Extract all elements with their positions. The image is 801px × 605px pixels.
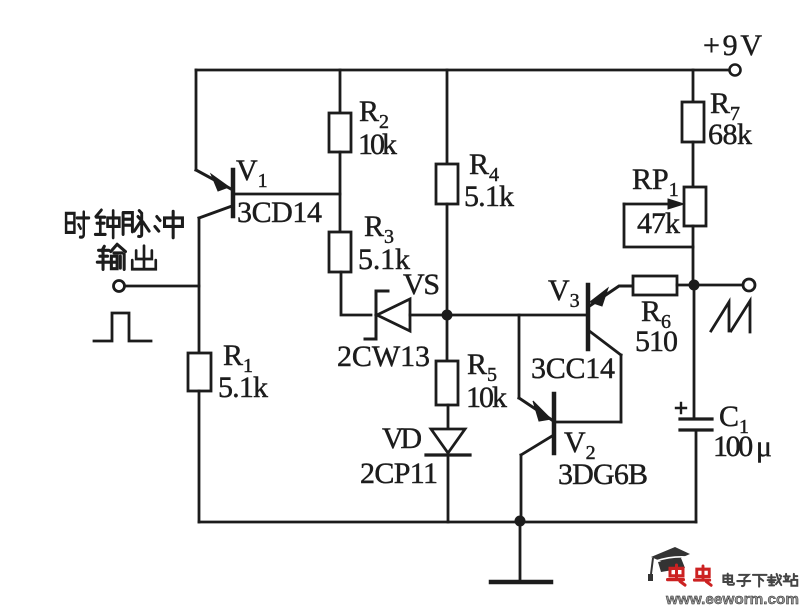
- svg-text:+9V: +9V: [703, 29, 762, 62]
- transistor V2: [519, 394, 554, 455]
- wire R2-R3: [339, 152, 342, 232]
- resistor R7: [682, 102, 704, 142]
- node clock input terminal: [114, 281, 125, 292]
- wire input: [125, 285, 199, 288]
- resistor R1: [188, 353, 211, 391]
- wire node to V3 base: [447, 314, 586, 317]
- sawtooth waveform symbol: [711, 301, 750, 332]
- wire bottom rail: [199, 521, 696, 524]
- svg-text:68k: 68k: [708, 118, 752, 151]
- potentiometer RP1: [624, 187, 706, 247]
- wire top rail: [196, 69, 736, 72]
- resistor R2: [329, 113, 351, 152]
- logo graduation cap: [648, 547, 690, 581]
- resistor R3: [329, 232, 351, 272]
- node zener junction: [442, 310, 453, 321]
- wire left lower vertical: [198, 218, 201, 353]
- wire node to R5: [446, 315, 449, 361]
- pulse waveform symbol: [94, 313, 151, 341]
- wire zener to node: [410, 314, 447, 317]
- wire node to C1: [693, 285, 696, 418]
- wire VD to bottom rail: [447, 456, 450, 522]
- node ground junction: [515, 516, 526, 527]
- svg-text:3DG6B: 3DG6B: [558, 458, 648, 491]
- wire V3 collector riser: [620, 355, 623, 422]
- node output terminal: [743, 279, 755, 291]
- wire R7 to RP1: [692, 142, 695, 187]
- wire C1 to bottom rail: [695, 430, 698, 522]
- wire R4 to node: [446, 204, 449, 315]
- svg-text:5.1k: 5.1k: [218, 371, 268, 404]
- wire RP1 to output node: [692, 226, 695, 285]
- wire output: [694, 284, 743, 287]
- capacitor C1: [676, 403, 712, 430]
- node +9V terminal: [730, 65, 741, 76]
- wire R6 to node: [677, 284, 694, 287]
- svg-text:10k: 10k: [358, 128, 397, 161]
- zener diode VS: [365, 291, 410, 339]
- wire R5 to VD: [447, 405, 450, 429]
- resistor R4: [436, 164, 458, 204]
- svg-text:10k: 10k: [466, 381, 507, 414]
- svg-text:3CD14: 3CD14: [237, 196, 322, 229]
- logo 虫虫 red: [668, 565, 712, 585]
- svg-text:100 μ: 100 μ: [713, 430, 772, 463]
- wire left upper vertical: [195, 70, 198, 170]
- transistor V3: [588, 285, 633, 355]
- wire V2 base: [556, 421, 621, 424]
- svg-text:47k: 47k: [637, 207, 680, 240]
- svg-text:www.eeworm.com: www.eeworm.com: [665, 591, 799, 605]
- svg-text:5.1k: 5.1k: [464, 180, 514, 213]
- wire R3 to zener line: [341, 272, 371, 315]
- wire R7 column top: [692, 70, 695, 102]
- logo text 电子下载站: [723, 574, 797, 587]
- resistor R5: [436, 361, 458, 405]
- svg-text:2CW13: 2CW13: [337, 340, 430, 373]
- resistor R6: [633, 276, 677, 295]
- diode VD: [426, 429, 470, 455]
- wire V2 emitter to ground rail: [520, 455, 523, 521]
- wire R2 column top: [339, 70, 342, 113]
- wire V2 collector riser up: [518, 315, 521, 398]
- svg-text:3CC14: 3CC14: [531, 352, 615, 385]
- svg-text:2CP11: 2CP11: [360, 457, 438, 490]
- transistor V1: [196, 170, 340, 218]
- svg-text:VS: VS: [403, 268, 440, 301]
- ground: [491, 522, 551, 582]
- wire R1 to bottom rail: [198, 391, 201, 522]
- svg-text:510: 510: [635, 325, 678, 358]
- text output 输出: [97, 244, 155, 269]
- text clock pulse 时钟脉冲: [66, 210, 182, 238]
- svg-text:VD: VD: [382, 422, 422, 455]
- node output junction: [689, 280, 700, 291]
- wire R4 column top: [446, 70, 449, 164]
